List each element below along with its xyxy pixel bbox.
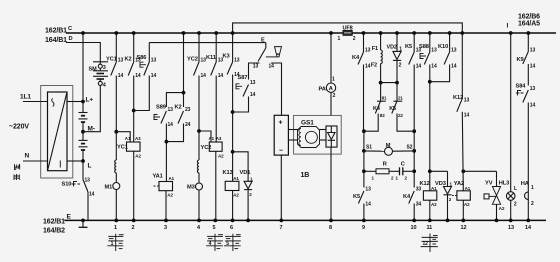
svg-text:3: 3 bbox=[103, 65, 106, 71]
svg-text:2: 2 bbox=[132, 225, 135, 231]
svg-text:A3: A3 bbox=[135, 136, 141, 141]
wire diode to bus bbox=[330, 147, 332, 220]
svg-text:1: 1 bbox=[338, 36, 341, 42]
wires battery to generator bbox=[288, 129, 297, 131]
svg-text:I: I bbox=[507, 23, 509, 30]
svg-text:VD1: VD1 bbox=[240, 170, 251, 176]
rectifier diagonal bbox=[48, 92, 68, 171]
wire K12 coil to VD3 bbox=[430, 170, 448, 172]
svg-text:−: − bbox=[279, 148, 283, 155]
svg-text:GS1: GS1 bbox=[301, 120, 314, 127]
svg-text:A3: A3 bbox=[216, 136, 222, 141]
svg-text:VD3: VD3 bbox=[435, 181, 446, 187]
svg-text:14: 14 bbox=[269, 64, 275, 70]
svg-text:33: 33 bbox=[416, 187, 422, 193]
node S86 join bbox=[132, 109, 136, 113]
svg-text:A: A bbox=[329, 86, 333, 92]
node dot C x83 bbox=[81, 31, 85, 35]
generator rotor circle bbox=[305, 131, 317, 143]
battery GB1 cells bbox=[79, 113, 88, 141]
wire 1L1 input bbox=[23, 101, 48, 103]
svg-text:K4: K4 bbox=[403, 194, 411, 200]
svg-text:14: 14 bbox=[218, 73, 224, 79]
contact K9 NO bbox=[527, 33, 529, 52]
node YC2 tap bbox=[197, 129, 201, 133]
svg-text:22: 22 bbox=[398, 113, 403, 118]
svg-text:1: 1 bbox=[399, 47, 402, 53]
svg-text:5: 5 bbox=[213, 225, 216, 231]
svg-text:A2: A2 bbox=[464, 202, 470, 207]
wire N input bbox=[23, 160, 48, 162]
generator GS1 box bbox=[294, 115, 342, 154]
wire to YC2 coil A1 bbox=[199, 131, 211, 142]
inductor M1 choke bbox=[115, 160, 117, 173]
label chinese bbox=[14, 164, 20, 180]
svg-text:~220V: ~220V bbox=[9, 124, 29, 131]
svg-text:F2: F2 bbox=[371, 63, 377, 69]
svg-text:13: 13 bbox=[530, 86, 536, 92]
svg-text:14: 14 bbox=[464, 113, 470, 119]
svg-text:A1: A1 bbox=[125, 136, 131, 141]
svg-text:YA1: YA1 bbox=[153, 174, 163, 180]
svg-text:L: L bbox=[88, 163, 92, 170]
svg-text:14: 14 bbox=[250, 92, 256, 98]
wire E line bbox=[149, 42, 265, 44]
battery SM column bbox=[93, 61, 108, 63]
svg-text:13: 13 bbox=[530, 48, 536, 54]
DC symbol bbox=[59, 161, 61, 168]
svg-text:13: 13 bbox=[431, 48, 437, 54]
svg-text:K11: K11 bbox=[206, 55, 216, 61]
svg-text:23: 23 bbox=[185, 107, 191, 113]
svg-text:9: 9 bbox=[362, 225, 365, 231]
svg-text:13: 13 bbox=[508, 225, 514, 231]
contact K4 NC 81-82 bbox=[380, 83, 382, 101]
table ref K12 bbox=[421, 234, 438, 253]
svg-text:14: 14 bbox=[451, 64, 457, 70]
svg-text:1: 1 bbox=[111, 241, 114, 247]
wire jumper above fuse bbox=[233, 23, 463, 33]
svg-text:11: 11 bbox=[427, 225, 433, 231]
svg-text:1: 1 bbox=[332, 77, 335, 83]
left stub bbox=[249, 63, 260, 80]
svg-text:S1: S1 bbox=[366, 145, 372, 151]
svg-text:A2: A2 bbox=[499, 206, 505, 211]
svg-text:+: + bbox=[279, 120, 283, 127]
svg-text:K4: K4 bbox=[373, 106, 381, 112]
svg-text:HL3: HL3 bbox=[499, 181, 509, 187]
wire to S89 bbox=[166, 93, 183, 107]
svg-text:1: 1 bbox=[114, 225, 117, 231]
svg-text:L+: L+ bbox=[86, 97, 94, 104]
svg-text:164/B2: 164/B2 bbox=[43, 228, 65, 235]
bus E bottom rail bbox=[64, 219, 546, 221]
svg-text:1B: 1B bbox=[301, 172, 310, 179]
svg-text:M1: M1 bbox=[105, 185, 113, 191]
svg-text:13: 13 bbox=[151, 58, 157, 64]
svg-text:2: 2 bbox=[399, 63, 402, 69]
node S87 join bbox=[231, 110, 235, 114]
svg-text:12: 12 bbox=[461, 225, 467, 231]
svg-text:164/B1: 164/B1 bbox=[45, 37, 67, 44]
svg-text:5: 5 bbox=[226, 241, 229, 247]
svg-text:K2: K2 bbox=[125, 57, 132, 63]
svg-text:A2: A2 bbox=[218, 154, 224, 159]
svg-text:K5: K5 bbox=[389, 106, 396, 112]
svg-text:13: 13 bbox=[451, 48, 457, 54]
svg-text:14: 14 bbox=[530, 103, 536, 109]
contact K4 NO 33-34 lower bbox=[413, 171, 415, 187]
svg-text:14: 14 bbox=[431, 64, 437, 70]
svg-text:14: 14 bbox=[151, 73, 157, 79]
svg-text:K10: K10 bbox=[438, 44, 448, 50]
svg-text:A1: A1 bbox=[209, 136, 215, 141]
right stub bbox=[271, 63, 282, 115]
wire L output bbox=[67, 160, 83, 162]
svg-text:M3: M3 bbox=[187, 185, 195, 191]
svg-text:8: 8 bbox=[329, 225, 332, 231]
bus C/I top rail bbox=[66, 32, 556, 34]
svg-text:13: 13 bbox=[365, 48, 371, 54]
connector O3 bbox=[98, 64, 102, 68]
svg-text:14: 14 bbox=[416, 64, 422, 70]
svg-text:3: 3 bbox=[164, 225, 167, 231]
svg-text:14: 14 bbox=[118, 73, 124, 79]
svg-text:S88: S88 bbox=[419, 44, 429, 50]
RC row bbox=[363, 151, 365, 171]
wire D stub bbox=[66, 43, 100, 62]
svg-text:A2: A2 bbox=[431, 202, 437, 207]
table ref YC2 bbox=[206, 234, 223, 251]
svg-text:1: 1 bbox=[531, 185, 534, 191]
generator coil bbox=[299, 129, 301, 146]
mushroom head bbox=[275, 47, 282, 54]
svg-text:A2: A2 bbox=[167, 193, 173, 198]
svg-text:S10: S10 bbox=[62, 182, 72, 188]
node dot L+ bbox=[81, 100, 85, 104]
svg-text:24: 24 bbox=[185, 122, 191, 128]
svg-text:A1: A1 bbox=[169, 176, 175, 181]
svg-text:7: 7 bbox=[280, 225, 283, 231]
wire to YC1 coil A1 bbox=[116, 132, 130, 142]
wire SM to M- bbox=[83, 85, 100, 131]
node VD1 tap bbox=[231, 150, 235, 154]
emergency stop switch bbox=[265, 43, 267, 48]
ammeter PA bbox=[330, 33, 332, 83]
svg-text:S86: S86 bbox=[137, 55, 147, 61]
table ref K13 bbox=[224, 234, 241, 251]
ground symbol bbox=[81, 219, 85, 223]
svg-text:2: 2 bbox=[353, 36, 356, 42]
svg-text:S89: S89 bbox=[156, 105, 166, 111]
contact K5 NO 13-14 lower bbox=[363, 171, 365, 187]
wire YA2 to YV bbox=[463, 170, 496, 172]
svg-text:PA: PA bbox=[319, 87, 326, 93]
wire column x83 from C bus bbox=[82, 33, 84, 113]
svg-text:12: 12 bbox=[423, 241, 429, 247]
svg-text:13: 13 bbox=[365, 187, 371, 193]
svg-text:K3: K3 bbox=[223, 54, 230, 60]
wire aux column x183.5 bbox=[183, 33, 185, 107]
svg-text:A2: A2 bbox=[135, 154, 141, 159]
svg-text:R: R bbox=[383, 162, 387, 168]
wire L+ output bbox=[67, 101, 83, 103]
svg-text:162/B1: 162/B1 bbox=[45, 28, 67, 35]
node L bbox=[81, 159, 85, 163]
svg-text:2: 2 bbox=[333, 93, 336, 99]
svg-text:13: 13 bbox=[253, 63, 259, 69]
svg-text:13: 13 bbox=[464, 98, 470, 104]
svg-text:F1: F1 bbox=[372, 46, 378, 52]
svg-text:14: 14 bbox=[89, 192, 95, 198]
svg-text:14: 14 bbox=[530, 64, 536, 70]
svg-text:N: N bbox=[25, 153, 30, 160]
svg-text:13: 13 bbox=[250, 80, 256, 86]
svg-text:10: 10 bbox=[411, 225, 417, 231]
wire F/VD2 join bbox=[381, 82, 397, 84]
battery SM cells bbox=[93, 62, 108, 82]
wires generator to diode bbox=[320, 129, 327, 131]
svg-text:K12: K12 bbox=[420, 181, 430, 187]
svg-text:14: 14 bbox=[135, 73, 141, 79]
svg-text:C: C bbox=[68, 26, 72, 32]
svg-text:13: 13 bbox=[234, 58, 240, 64]
contact K5 NC 21-22 bbox=[396, 83, 398, 101]
svg-text:K4: K4 bbox=[352, 55, 360, 61]
svg-text:4: 4 bbox=[209, 241, 212, 247]
svg-text:K13: K13 bbox=[223, 170, 233, 176]
svg-text:21: 21 bbox=[398, 96, 403, 101]
svg-text:14: 14 bbox=[201, 73, 207, 79]
rectifier diode box bbox=[326, 126, 337, 147]
battery 1B bbox=[274, 115, 288, 155]
svg-text:C: C bbox=[401, 162, 405, 168]
svg-text:14: 14 bbox=[365, 202, 371, 208]
svg-text:13: 13 bbox=[168, 107, 174, 113]
svg-text:A1: A1 bbox=[465, 186, 471, 191]
generator outline bbox=[298, 127, 320, 148]
svg-text:SM: SM bbox=[89, 67, 98, 73]
svg-text:34: 34 bbox=[416, 202, 422, 208]
svg-text:HA: HA bbox=[521, 181, 529, 187]
svg-text:1L1: 1L1 bbox=[20, 94, 31, 101]
rectifier U inner box bbox=[48, 92, 68, 171]
svg-text:S84: S84 bbox=[516, 84, 527, 90]
power supply outer box bbox=[41, 86, 73, 179]
svg-text:K9: K9 bbox=[517, 57, 524, 63]
svg-text:14: 14 bbox=[525, 225, 532, 231]
node M- bbox=[81, 130, 85, 134]
svg-text:162/B1: 162/B1 bbox=[43, 219, 65, 226]
svg-text:162/B6: 162/B6 bbox=[518, 14, 540, 21]
battery GB2 cells bbox=[79, 140, 88, 179]
svg-text:A2: A2 bbox=[233, 193, 239, 198]
svg-text:L: L bbox=[514, 186, 517, 192]
inductor M3 choke bbox=[197, 160, 199, 173]
svg-text:K2: K2 bbox=[175, 105, 182, 111]
svg-text:13: 13 bbox=[118, 58, 124, 64]
AC symbol bbox=[52, 99, 54, 107]
svg-text:YC2: YC2 bbox=[187, 57, 198, 63]
svg-text:14: 14 bbox=[168, 122, 174, 128]
svg-text:2: 2 bbox=[531, 201, 534, 207]
svg-text:S2: S2 bbox=[407, 145, 413, 151]
svg-text:S87: S87 bbox=[238, 75, 248, 81]
table ref M1 bbox=[107, 234, 123, 251]
svg-text:13: 13 bbox=[85, 178, 91, 184]
svg-text:A1: A1 bbox=[233, 176, 239, 181]
svg-text:YA2: YA2 bbox=[454, 181, 464, 187]
svg-text:D: D bbox=[69, 36, 73, 42]
svg-text:81: 81 bbox=[382, 96, 387, 101]
svg-text:82: 82 bbox=[380, 113, 385, 118]
svg-text:YV: YV bbox=[485, 181, 493, 187]
svg-text:164/A5: 164/A5 bbox=[518, 21, 540, 28]
svg-text:2: 2 bbox=[514, 202, 517, 208]
svg-text:6: 6 bbox=[230, 225, 233, 231]
svg-text:VD2: VD2 bbox=[387, 45, 397, 51]
node YC1 branch tap bbox=[114, 130, 118, 134]
connector O4 bbox=[98, 81, 102, 85]
wiper motor row bbox=[363, 131, 365, 151]
contact K12 NO bbox=[461, 33, 463, 98]
svg-text:K5: K5 bbox=[405, 44, 412, 50]
svg-text:K5: K5 bbox=[353, 194, 360, 200]
svg-text:YC1: YC1 bbox=[106, 57, 117, 63]
